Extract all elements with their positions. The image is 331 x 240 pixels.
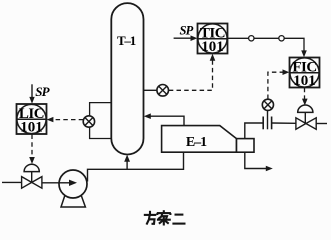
dashed signal TT to TIC xyxy=(169,54,216,91)
column T-1 xyxy=(111,3,143,154)
controller TIC-101 xyxy=(198,24,228,56)
flow transmitter xyxy=(262,99,273,129)
junction circle 2 xyxy=(279,36,284,41)
feed pipe left segment xyxy=(2,181,22,183)
svg-text:T–1: T–1 xyxy=(117,33,136,48)
junction circle 1 xyxy=(249,36,254,41)
svg-text:SP: SP xyxy=(180,24,194,38)
orifice flange right xyxy=(271,117,273,130)
caption 方案二 (drawn strokes) xyxy=(144,210,186,225)
svg-text:101: 101 xyxy=(20,120,43,136)
pipe after right valve xyxy=(316,123,327,125)
svg-text:SP: SP xyxy=(35,84,50,99)
temperature sensor line xyxy=(144,89,158,91)
heat exchanger E-1 xyxy=(162,126,254,153)
orifice flange left xyxy=(262,117,264,130)
svg-text:101: 101 xyxy=(201,39,224,55)
pipe orifice to valve xyxy=(272,122,296,124)
pump xyxy=(59,170,87,207)
vapor line E-1 to column with arrow xyxy=(144,113,184,125)
product pipe E-1 head to valve xyxy=(245,123,263,139)
dashed signal FIC to right valve xyxy=(302,88,308,106)
controller LIC-101 xyxy=(17,104,47,136)
controller FIC-101 xyxy=(290,58,320,90)
dashed signal LT to LIC xyxy=(47,117,84,122)
svg-text:101: 101 xyxy=(293,73,316,89)
char 案 xyxy=(163,210,165,212)
char 二 xyxy=(175,214,184,216)
dashed signal FT to FIC xyxy=(268,69,289,99)
pipe valve to pump with arrow xyxy=(42,180,77,186)
temperature transmitter xyxy=(157,85,169,97)
column reboil return arrow xyxy=(124,155,130,170)
char 方 xyxy=(149,211,151,214)
bottoms outlet pipe with arrow xyxy=(245,152,273,171)
level tap piping xyxy=(90,103,112,139)
dashed signal LIC to left valve xyxy=(29,135,35,165)
level transmitter xyxy=(83,116,94,127)
svg-text:E–1: E–1 xyxy=(186,135,207,150)
pump discharge pipe to E-1 bottom xyxy=(88,153,184,182)
control valve FV (right) xyxy=(296,105,316,129)
control valve LV (left) xyxy=(22,164,42,188)
SP arrow into TIC xyxy=(174,35,198,41)
signal TIC to FIC xyxy=(228,38,307,57)
SP arrow into LIC xyxy=(29,84,34,103)
